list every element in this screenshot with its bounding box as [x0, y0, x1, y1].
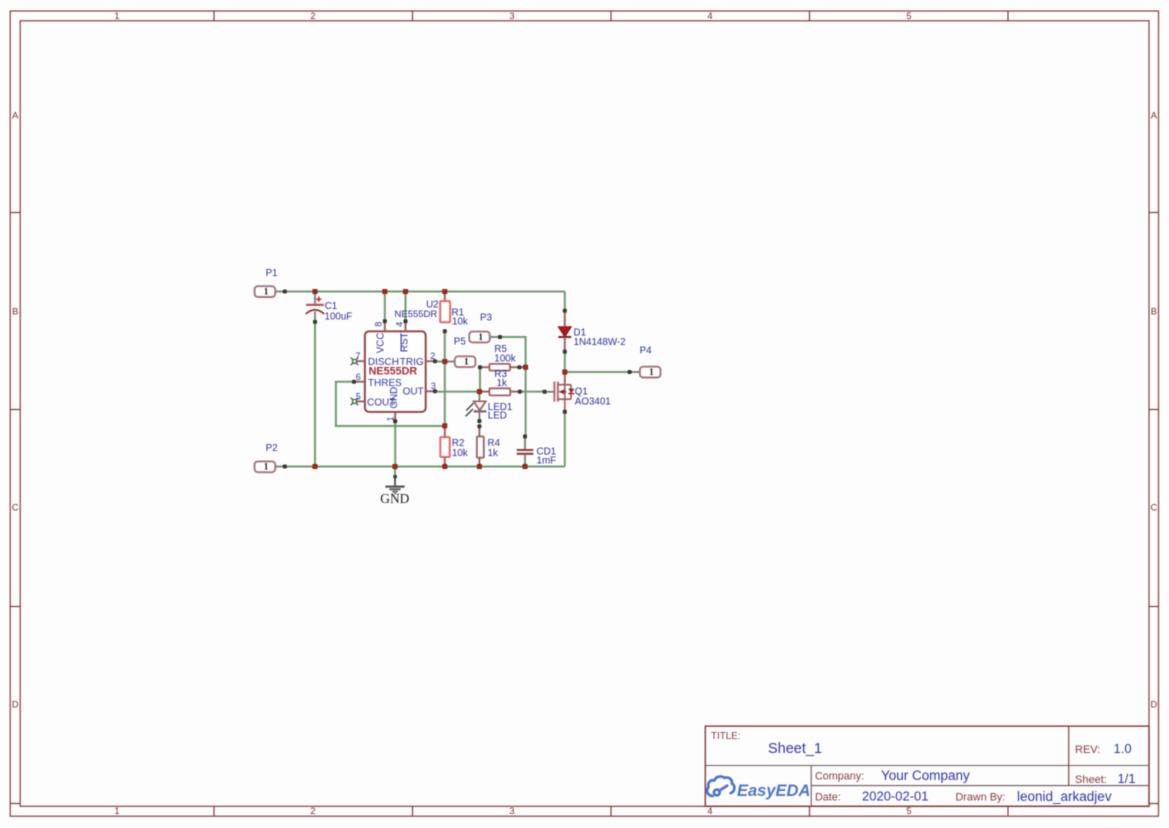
svg-text:1: 1 — [464, 357, 469, 367]
svg-text:OUT: OUT — [403, 386, 424, 397]
svg-text:REV:: REV: — [1075, 744, 1100, 756]
svg-text:4: 4 — [707, 11, 712, 21]
svg-text:1N4148W-2: 1N4148W-2 — [574, 337, 626, 348]
svg-text:1mF: 1mF — [537, 456, 557, 467]
svg-text:B: B — [12, 307, 18, 317]
svg-text:Date:: Date: — [815, 792, 841, 804]
svg-text:GND: GND — [380, 491, 409, 506]
svg-text:2: 2 — [310, 11, 315, 21]
svg-text:EasyEDA: EasyEDA — [737, 782, 810, 800]
svg-text:NE555DR: NE555DR — [369, 366, 418, 378]
svg-text:2: 2 — [310, 806, 315, 816]
svg-text:Company:: Company: — [815, 771, 864, 783]
svg-text:100uF: 100uF — [325, 311, 353, 322]
svg-text:Drawn By:: Drawn By: — [956, 792, 1006, 804]
svg-text:P2: P2 — [266, 443, 278, 454]
svg-text:5: 5 — [906, 11, 911, 21]
svg-text:P1: P1 — [266, 268, 278, 279]
svg-text:AO3401: AO3401 — [575, 397, 611, 408]
svg-text:Sheet_1: Sheet_1 — [768, 741, 822, 757]
svg-text:4: 4 — [707, 806, 712, 816]
svg-text:C: C — [12, 503, 19, 513]
svg-text:1: 1 — [649, 367, 654, 377]
svg-text:TITLE:: TITLE: — [711, 731, 740, 742]
svg-text:1/1: 1/1 — [1118, 771, 1136, 786]
svg-text:2020-02-01: 2020-02-01 — [862, 789, 929, 804]
svg-text:1: 1 — [114, 806, 119, 816]
svg-text:1: 1 — [264, 462, 269, 472]
svg-text:1k: 1k — [497, 378, 507, 389]
svg-text:P3: P3 — [480, 312, 493, 323]
svg-text:1: 1 — [114, 11, 119, 21]
svg-text:Your Company: Your Company — [881, 768, 970, 783]
svg-text:Q1: Q1 — [575, 386, 588, 397]
svg-text:D: D — [1150, 700, 1157, 710]
svg-text:1k: 1k — [488, 448, 498, 459]
svg-text:1.0: 1.0 — [1114, 741, 1132, 756]
svg-text:10k: 10k — [452, 316, 468, 327]
svg-text:C: C — [1150, 503, 1157, 513]
svg-text:3: 3 — [509, 806, 514, 816]
svg-text:10k: 10k — [452, 448, 468, 459]
svg-text:100k: 100k — [494, 353, 515, 364]
svg-text:GND: GND — [389, 387, 400, 409]
svg-text:A: A — [1151, 111, 1158, 121]
svg-text:NE555DR: NE555DR — [395, 309, 438, 320]
svg-text:P5: P5 — [454, 336, 467, 347]
svg-text:6: 6 — [356, 372, 361, 382]
svg-text:5: 5 — [356, 392, 361, 402]
svg-text:8: 8 — [374, 322, 384, 327]
svg-text:3: 3 — [509, 11, 514, 21]
svg-text:4: 4 — [394, 322, 404, 327]
svg-text:1: 1 — [478, 332, 483, 342]
svg-text:7: 7 — [355, 351, 360, 361]
svg-text:leonid_arkadjev: leonid_arkadjev — [1017, 789, 1112, 804]
svg-text:B: B — [1151, 307, 1157, 317]
svg-text:Sheet:: Sheet: — [1075, 774, 1107, 786]
svg-text:5: 5 — [906, 806, 911, 816]
svg-text:1: 1 — [264, 287, 269, 297]
svg-text:P4: P4 — [640, 346, 653, 357]
svg-text:LED: LED — [488, 410, 507, 421]
svg-text:D: D — [12, 700, 19, 710]
svg-text:VCC: VCC — [375, 333, 386, 354]
svg-text:A: A — [12, 111, 19, 121]
